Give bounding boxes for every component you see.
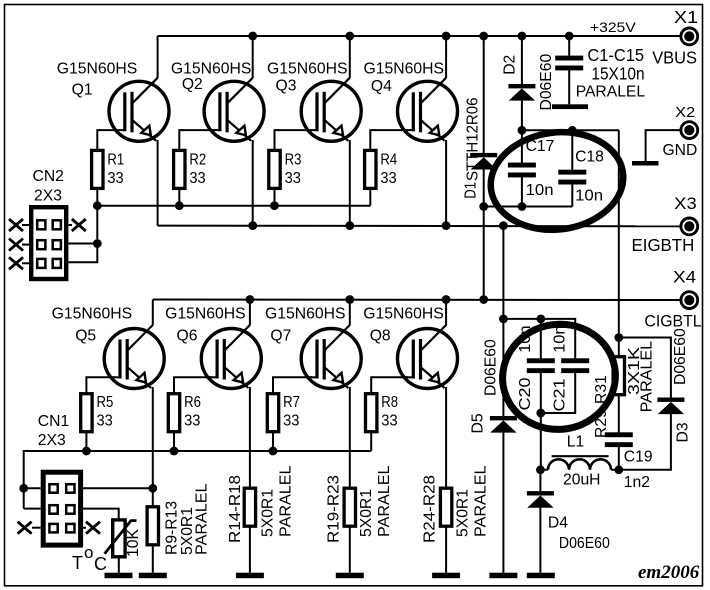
wire Q2 gate: [179, 130, 215, 150]
svg-text:Q7: Q7: [270, 328, 291, 345]
wire Q4 gate: [370, 130, 408, 150]
label D3 D06E60: [672, 328, 692, 442]
node CN1 pin4 junction: [148, 484, 157, 493]
label C21 10n: [551, 325, 568, 411]
svg-text:2X3: 2X3: [34, 188, 62, 205]
wire CN1 pins 1,2 to gate bus: [24, 488, 41, 508]
wire CN1 pin5 to thermistor: [81, 509, 119, 519]
wire Q1 collector: [157, 36, 159, 78]
svg-text:G15N60HS: G15N60HS: [165, 306, 246, 323]
resistor R5: [81, 394, 92, 432]
wire CN2 left pin stubs: [22, 225, 29, 263]
wire C1-C15 riser from VBUS: [568, 36, 570, 58]
transistor Q2: [204, 78, 264, 142]
wire Q3 gate: [275, 130, 313, 150]
svg-text:L1: L1: [567, 433, 584, 450]
label R4 33: [380, 152, 397, 188]
svg-text:G15N60HS: G15N60HS: [363, 306, 444, 323]
svg-text:C20: C20: [517, 377, 534, 410]
svg-text:Q3: Q3: [276, 78, 297, 95]
svg-text:10n: 10n: [526, 182, 554, 199]
wire link line C17 C18 tops: [522, 129, 619, 131]
wire D4 from L1 node: [539, 470, 541, 491]
label Q2 G15N60HS: [171, 60, 252, 93]
wire Q2 collector: [252, 36, 254, 78]
ground bar R24-R28: [432, 573, 460, 579]
label D2 D06E60: [501, 54, 555, 111]
wire R4 to gate bus: [369, 188, 371, 205]
wire Q1 emitter: [157, 140, 159, 226]
svg-text:+325V: +325V: [590, 20, 637, 35]
label Q3 G15N60HS: [267, 60, 348, 94]
wire D4 to ground: [539, 507, 541, 573]
label R3 33: [285, 152, 302, 188]
svg-text:R24-R28: R24-R28: [422, 475, 439, 543]
svg-text:10n: 10n: [575, 188, 603, 205]
wire CN2 pins 5,6 to gate bus: [68, 206, 97, 263]
wire D1 node to CIGBTL: [483, 207, 485, 300]
svg-text:em2006: em2006: [638, 562, 700, 583]
svg-text:G15N60HS: G15N60HS: [364, 60, 445, 77]
node C17 bottom junction: [518, 202, 527, 211]
wire Q6 collector: [249, 300, 251, 326]
wire R3 to gate bus: [274, 188, 276, 205]
ground bar D4: [527, 573, 555, 579]
svg-text:R8: R8: [381, 394, 398, 411]
svg-text:D06E60: D06E60: [672, 328, 689, 385]
wire C18 node to snubber resistor column: [618, 130, 620, 357]
svg-text:D4: D4: [548, 515, 568, 532]
svg-text:PARALEL: PARALEL: [472, 465, 489, 537]
svg-text:D1: D1: [463, 182, 480, 199]
wire C18 top lead: [571, 130, 573, 171]
svg-text:X3: X3: [674, 194, 697, 213]
resistor R29-R31 3X1K: [613, 357, 624, 395]
wire Q8 emitter: [445, 387, 447, 488]
svg-text:D06E60: D06E60: [483, 339, 500, 396]
node CN2 pin4 no-connect X: [72, 219, 86, 231]
node snubber resistor top junction: [614, 333, 623, 342]
svg-text:X1: X1: [674, 7, 698, 27]
wire D5 to ground: [502, 432, 504, 573]
resistor R3: [269, 150, 280, 188]
svg-text:33: 33: [381, 412, 398, 429]
svg-text:GND: GND: [663, 142, 698, 159]
svg-text:33: 33: [283, 412, 300, 429]
svg-text:G15N60HS: G15N60HS: [52, 306, 132, 323]
svg-text:33: 33: [107, 170, 124, 187]
label T°C: [72, 543, 107, 574]
transistor Q3: [301, 78, 361, 142]
diode D3 D06E60: [657, 398, 684, 415]
wire R29-R31 to C19: [618, 395, 620, 435]
svg-text:Q8: Q8: [370, 328, 391, 345]
svg-text:20uH: 20uH: [563, 471, 601, 488]
node C20 top junction: [536, 315, 545, 324]
resistor R19-R23: [344, 488, 355, 526]
resistor R14-R18: [244, 488, 255, 526]
svg-text:D2: D2: [501, 55, 518, 75]
connector CN2 2X3: [31, 207, 66, 279]
wire Q1 gate: [97, 130, 120, 150]
node VBUS junction dots: [248, 32, 573, 41]
svg-text:5X0R1: 5X0R1: [454, 489, 471, 537]
svg-text:CIGBTL: CIGBTL: [644, 311, 701, 330]
transistor Q1: [109, 78, 169, 142]
label L1 20uH: [563, 433, 601, 488]
resistor R9-R13: [147, 507, 158, 545]
node CN1 pin3 no-connect X: [18, 522, 32, 534]
transistor Q4: [398, 78, 458, 142]
resistor R8: [366, 394, 377, 432]
wire D3 to L1 node: [619, 413, 671, 469]
label CN1 2X3: [38, 413, 69, 449]
svg-text:STTH12R06: STTH12R06: [465, 97, 482, 181]
capacitor C17 10n: [508, 163, 536, 178]
wire X2 to ground symbol: [646, 130, 681, 161]
wire CN1 pin6 stub: [81, 527, 86, 529]
svg-text:X2: X2: [675, 104, 695, 121]
svg-text:CN2: CN2: [33, 168, 64, 185]
svg-text:G15N60HS: G15N60HS: [171, 60, 252, 77]
wire CIGBTL collector bus: [153, 299, 681, 302]
svg-text:G15N60HS: G15N60HS: [267, 60, 348, 77]
capacitor C1-C15: [555, 56, 583, 71]
label C19 1n2: [624, 449, 653, 491]
ground bar R14-R18: [236, 573, 264, 579]
svg-text:D3: D3: [675, 422, 692, 442]
svg-text:D5: D5: [470, 413, 487, 433]
node snubber branch junction: [499, 315, 508, 324]
svg-text:PARALEL: PARALEL: [576, 83, 646, 100]
svg-text:o: o: [84, 543, 93, 562]
diode D5 D06E60: [490, 416, 517, 433]
wire EIGBTH emitter bus: [158, 225, 681, 228]
svg-text:CN1: CN1: [38, 413, 69, 430]
label R5 33: [97, 394, 114, 429]
wire L1 leads: [540, 469, 618, 471]
resistor R4: [365, 150, 376, 188]
node CN2 pin5 junction: [93, 239, 102, 248]
capacitor C18 10n: [558, 170, 586, 185]
label R14-R18 5X0R1 PARALEL: [227, 465, 295, 543]
wire CN2 pin4 stub: [68, 224, 72, 226]
label C1-C15 15X10n PARALEL: [576, 45, 646, 100]
wire C20 top lead: [540, 319, 542, 360]
wire C19 to L1 node: [618, 445, 620, 470]
svg-text:G15N60HS: G15N60HS: [57, 60, 138, 77]
svg-text:VBUS: VBUS: [652, 47, 697, 67]
inductor L1 20uH: [548, 456, 611, 470]
wire Q6 emitter: [249, 387, 251, 488]
wire snubber branch to C20 C21 tops: [503, 319, 575, 360]
label D4 D06E60: [548, 515, 610, 553]
svg-text:33: 33: [380, 170, 397, 187]
resistor R6: [168, 394, 179, 432]
wire Q7 collector: [349, 300, 351, 326]
label C18 10n: [575, 148, 604, 204]
wire Q4 emitter: [445, 140, 447, 226]
svg-text:PARALEL: PARALEL: [278, 465, 295, 537]
label Q8 G15N60HS: [363, 306, 444, 345]
wire D2 to C17 node: [521, 101, 523, 131]
transistor Q5: [104, 325, 164, 389]
svg-text:EIGBTH: EIGBTH: [632, 235, 695, 255]
ground bar R19-R23: [336, 573, 364, 579]
wire CN1 pin4 to emitter column: [81, 487, 153, 489]
svg-text:15X10n: 15X10n: [591, 63, 644, 83]
transistor Q8: [398, 325, 458, 389]
label R19-R23 5X0R1 PARALEL: [326, 465, 394, 543]
svg-text:Q4: Q4: [371, 78, 392, 95]
label D5 D06E60: [470, 339, 500, 433]
wire Q7 emitter: [349, 387, 351, 488]
diode D4 D06E60: [527, 491, 554, 508]
terminal X2: [681, 122, 698, 139]
node C18 top junction: [568, 126, 577, 135]
svg-text:Q2: Q2: [182, 76, 203, 93]
svg-text:R19-R23: R19-R23: [326, 475, 343, 543]
wire R1 to gate bus: [96, 188, 98, 205]
node D1 link junction: [479, 202, 488, 211]
wire R7 to gate bus: [272, 432, 274, 451]
svg-text:PARALEL: PARALEL: [639, 341, 656, 413]
wire R6 to gate bus: [173, 432, 175, 451]
wire R24-R28 to ground: [445, 526, 447, 573]
svg-text:5X0R1: 5X0R1: [260, 489, 277, 537]
svg-text:C18: C18: [575, 148, 604, 165]
wire Q3 emitter: [349, 140, 351, 226]
wire D1 to link node: [483, 169, 485, 207]
wire C20 bottom lead: [540, 372, 542, 413]
ground bar thermistor: [105, 573, 133, 579]
wire snubber top to D3: [619, 338, 671, 398]
svg-text:R7: R7: [283, 394, 300, 411]
svg-text:C: C: [94, 554, 107, 574]
wire Q6 gate: [174, 377, 212, 393]
capacitor C21 10n: [561, 358, 589, 373]
wire R9-R13 to ground: [152, 545, 154, 573]
svg-text:C1-C15: C1-C15: [587, 45, 644, 65]
diode D2 D06E60: [508, 84, 535, 101]
svg-text:C19: C19: [624, 449, 653, 466]
node C20 bottom junction: [536, 409, 545, 418]
label R29-R31 3X1K PARALEL: [593, 341, 656, 438]
svg-text:X4: X4: [673, 269, 696, 287]
wire EIGBTH to snubber column: [502, 226, 504, 319]
svg-text:R2: R2: [189, 152, 206, 169]
svg-text:Q1: Q1: [72, 82, 93, 99]
label R8 33: [381, 394, 398, 429]
svg-text:R1: R1: [107, 152, 124, 169]
wire Q8 gate: [371, 377, 408, 393]
label C20 10n: [517, 325, 534, 410]
svg-text:C21: C21: [551, 379, 568, 412]
svg-text:33: 33: [285, 170, 302, 187]
transistor Q6: [201, 325, 261, 389]
svg-text:PARALEL: PARALEL: [376, 465, 393, 537]
connector CN1 2X3: [43, 472, 80, 545]
wire C17 bottom lead: [521, 176, 523, 207]
svg-text:R3: R3: [285, 152, 302, 169]
wire D1 anode riser from VBUS: [483, 36, 485, 153]
wire R2 to gate bus: [178, 188, 180, 205]
node CN1 pin6 no-connect X: [86, 522, 100, 534]
svg-text:R14-R18: R14-R18: [227, 475, 244, 543]
label C17 10n: [526, 138, 555, 199]
wire Q5 collector: [152, 300, 154, 326]
wire Q5 emitter: [152, 387, 154, 508]
svg-text:Q6: Q6: [177, 328, 198, 345]
resistor R2: [174, 150, 185, 188]
label X3 EIGBTH: [632, 194, 697, 255]
label X4 CIGBTL: [644, 269, 701, 331]
ground bar R9-R13: [139, 573, 167, 579]
svg-text:10K: 10K: [125, 529, 142, 557]
wire gate bus top row: [97, 205, 370, 207]
wire CN1 pin3 stub: [32, 527, 41, 529]
svg-text:5X0R1: 5X0R1: [358, 489, 375, 537]
label R24-R28 5X0R1 PARALEL: [422, 465, 490, 543]
svg-text:D06E60: D06E60: [559, 535, 610, 552]
svg-text:33: 33: [189, 170, 206, 187]
ground bar D5: [489, 573, 517, 579]
ground bar C1-C15: [552, 104, 588, 109]
terminal X4: [681, 292, 698, 309]
label R6 33: [184, 394, 201, 429]
wire C18 bottom lead: [571, 183, 573, 207]
wire thermistor to ground: [118, 557, 120, 573]
wire gate bus bottom row: [24, 451, 372, 509]
svg-text:33: 33: [184, 412, 201, 429]
wire link line C17 C18 bottoms: [484, 206, 573, 208]
svg-text:PARALEL: PARALEL: [194, 483, 211, 555]
svg-text:33: 33: [97, 412, 114, 429]
wire R14-R18 to ground: [249, 526, 251, 573]
svg-text:2X3: 2X3: [38, 432, 66, 449]
wire Q3 collector: [349, 36, 351, 78]
wire R19-R23 to ground: [349, 526, 351, 573]
wire D5 column from EIGBTH: [502, 319, 504, 416]
wire R5 to gate bus: [85, 432, 87, 451]
capacitor C20 10n: [527, 358, 555, 373]
label Q5 G15N60HS: [52, 306, 132, 345]
svg-text:R5: R5: [97, 394, 114, 411]
label X2 GND: [663, 104, 698, 159]
resistor R24-R28: [440, 488, 451, 526]
wire C20 node down to L1 node: [540, 413, 542, 470]
wire Q7 gate: [273, 377, 312, 393]
node gate bus bottom dots: [19, 447, 277, 493]
resistor R7: [267, 394, 278, 432]
label R2 33: [189, 152, 206, 188]
svg-text:10n: 10n: [551, 325, 568, 353]
wire Q4 collector: [445, 36, 447, 78]
node L1 left junction: [536, 465, 545, 474]
label STTH12R06 D1: [463, 97, 482, 198]
svg-text:D06E60: D06E60: [538, 54, 555, 111]
svg-text:Q5: Q5: [75, 328, 96, 345]
node EIGBTH junction dots: [248, 221, 508, 230]
diode D1 STTH12R06: [470, 153, 497, 170]
svg-text:1n2: 1n2: [624, 474, 650, 491]
terminal X1: [681, 28, 698, 45]
label X1 VBUS: [652, 7, 698, 67]
wire R8 to gate bus: [370, 432, 372, 451]
node D2 C17 junction: [518, 126, 527, 135]
freehand circle highlight around C20 C21: [495, 316, 623, 437]
transistor Q7: [301, 325, 361, 389]
label Q4 G15N60HS: [364, 60, 445, 95]
label R7 33: [283, 394, 300, 429]
wire D2 riser from VBUS: [521, 36, 523, 84]
label Q7 G15N60HS: [265, 306, 346, 345]
wire Q2 emitter: [252, 140, 254, 226]
capacitor C19 1n2: [605, 432, 633, 447]
svg-text:G15N60HS: G15N60HS: [265, 306, 346, 323]
label Q1 G15N60HS: [57, 60, 138, 98]
svg-text:R4: R4: [380, 152, 397, 169]
node CIGBTL junction dots: [246, 295, 489, 304]
node CN2 left no-connect X marks: [9, 219, 23, 269]
label R1 33: [107, 152, 124, 188]
ground bar GND: [632, 161, 659, 166]
terminal X3: [681, 218, 698, 235]
label R9-R13 5X0R1 PARALEL: [164, 483, 211, 555]
label Q6 G15N60HS: [165, 306, 246, 345]
wire Q8 collector: [445, 300, 447, 326]
freehand circle highlight around C17 C18: [485, 125, 629, 237]
svg-text:R9-R13: R9-R13: [164, 501, 181, 555]
wire C17 top lead: [521, 130, 523, 164]
wire C1-C15 bottom lead: [568, 69, 570, 104]
node gate bus top dots: [93, 201, 279, 210]
resistor R1: [92, 150, 103, 188]
wire VBUS top bus: [158, 35, 681, 37]
svg-text:T: T: [72, 553, 83, 573]
thermistor 10K: [105, 520, 137, 557]
svg-text:R6: R6: [184, 394, 201, 411]
node L1 right junction: [614, 465, 623, 474]
wire Q5 gate: [86, 377, 115, 393]
wire C20 C21 bottom link: [541, 372, 575, 413]
label CN2 2X3: [33, 168, 64, 205]
